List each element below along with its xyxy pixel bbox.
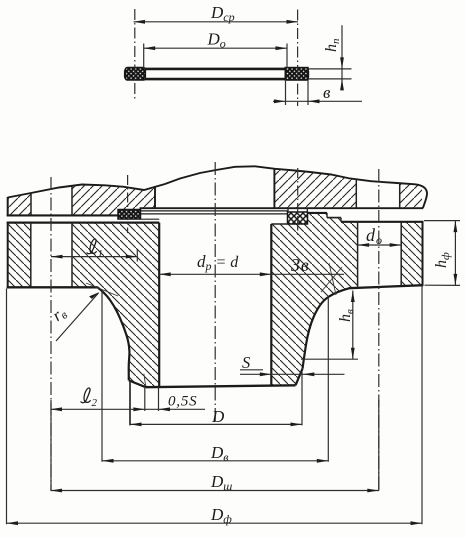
upper flange bore edge left: [154, 186, 156, 208]
0.5S ext right / bore line extended: [158, 388, 160, 412]
upper flange hatched piece D (right end): [400, 183, 422, 208]
svg-text:Зв: Зв: [291, 255, 310, 275]
lower flange top face right: [341, 221, 423, 223]
right bolt axis centerline: [378, 169, 380, 491]
lower flange groove bottom right side: [271, 223, 287, 225]
upper flange hatched piece A (far left): [8, 193, 31, 215]
dimension в (gasket width, right side): [273, 81, 362, 105]
Dф ext left: [6, 289, 8, 525]
dimension Dcp: [134, 3, 299, 24]
svg-text:S: S: [242, 353, 250, 372]
svg-text:в: в: [323, 83, 331, 102]
upper flange hatched piece C: [274, 169, 356, 208]
gasket circle centerline left (main view): [127, 175, 129, 233]
weld bevel right: [296, 368, 303, 385]
D ext left: [129, 381, 131, 425]
gasket left cross-section block (main view): [118, 210, 141, 220]
centerline left (gasket circle): [134, 9, 136, 101]
dimension l2 / 0,5S line: [51, 388, 206, 411]
upper flange right bolt hole edges: [355, 179, 357, 208]
flange bottom face right (slopes slightly): [349, 285, 423, 288]
neck outer profile left (fillet + taper): [97, 287, 129, 380]
gasket body outline: [125, 69, 308, 79]
main axis centerline: [214, 162, 216, 424]
dimension d_р = d: [159, 252, 344, 276]
0.5S ext left: [144, 388, 146, 411]
Dв ext left: [101, 290, 103, 462]
dimension h_в (neck taper height, right): [301, 291, 358, 360]
upper flange hatched piece B: [72, 185, 155, 216]
weld bevel left: [129, 380, 146, 387]
weld bevel inner edge left (thin): [144, 374, 146, 387]
lower flange hatched piece L2 + left neck wall: [72, 223, 159, 388]
dimension S (wall thickness at weld end): [240, 353, 345, 376]
upper flange left edge: [7, 197, 9, 216]
dimension h_п (gasket thickness, right side): [309, 25, 352, 90]
solid lower portions of bolt axis extension lines: [50, 400, 52, 491]
leader r_в with arrow: [49, 292, 100, 341]
gasket right cross-section block (main view): [288, 212, 308, 224]
construction cross left fillet: [86, 283, 118, 296]
upper flange bottom edge right segment: [140, 207, 424, 209]
dimension Dв: [102, 443, 328, 464]
D ext right: [301, 372, 303, 425]
bottom end face of hub: [146, 385, 296, 387]
bore edge right (d): [270, 224, 272, 385]
gasket circle centerline right (main view): [297, 168, 299, 236]
upper flange bore edge right: [273, 169, 275, 208]
upper flange bolt hole right edge: [71, 186, 73, 215]
lower flange bolt hole edges right: [357, 222, 359, 287]
centerline right (gasket circle): [297, 10, 299, 107]
Dв ext right: [327, 297, 329, 462]
lower flange right edge: [422, 221, 424, 286]
lower flange hatched piece R2 (far right): [401, 222, 422, 286]
lower flange groove bottom left of bore: [141, 218, 160, 220]
lower flange hatched piece R + right neck wall: [271, 213, 357, 385]
upper flange bolt hole left edge: [30, 193, 32, 215]
dimension Dф: [7, 505, 423, 526]
upper flange bottom edge left segment: [7, 214, 119, 216]
dimension Dш: [51, 472, 379, 493]
gasket right cross-section block: [285, 68, 308, 80]
lower flange top face left: [7, 222, 160, 224]
gasket strip between flanges: [141, 210, 288, 212]
neck outer profile right (fillet + taper): [303, 288, 350, 368]
upper flange wavy break line (top profile): [8, 166, 427, 208]
lower flange raised rim right of gasket: [308, 212, 328, 214]
svg-text:0,5S: 0,5S: [168, 394, 197, 410]
lower flange bolt hole edges left: [30, 223, 32, 288]
gasket left cross-section block: [125, 68, 145, 80]
bore edge left (d): [158, 223, 160, 388]
left bolt axis centerline: [50, 177, 52, 491]
dimension d_о (right bolt hole): [358, 225, 402, 247]
flange bottom face left: [7, 286, 98, 288]
dimension D: [130, 407, 302, 426]
dimension h_ф (flange thickness, right): [424, 221, 460, 286]
construction cross right fillet: [321, 267, 342, 292]
svg-text:dр = d: dр = d: [197, 252, 239, 273]
svg-text:1: 1: [98, 248, 104, 260]
dimension Do: [144, 30, 287, 69]
Dф ext right: [421, 287, 423, 525]
dimension l1: [51, 239, 137, 262]
lower flange hatched piece L1 (far left): [8, 223, 31, 288]
svg-text:2: 2: [92, 397, 98, 409]
upper flange tongue walls at gasket: [287, 208, 289, 212]
lower flange left edge: [7, 222, 9, 289]
svg-text:D: D: [211, 407, 225, 426]
